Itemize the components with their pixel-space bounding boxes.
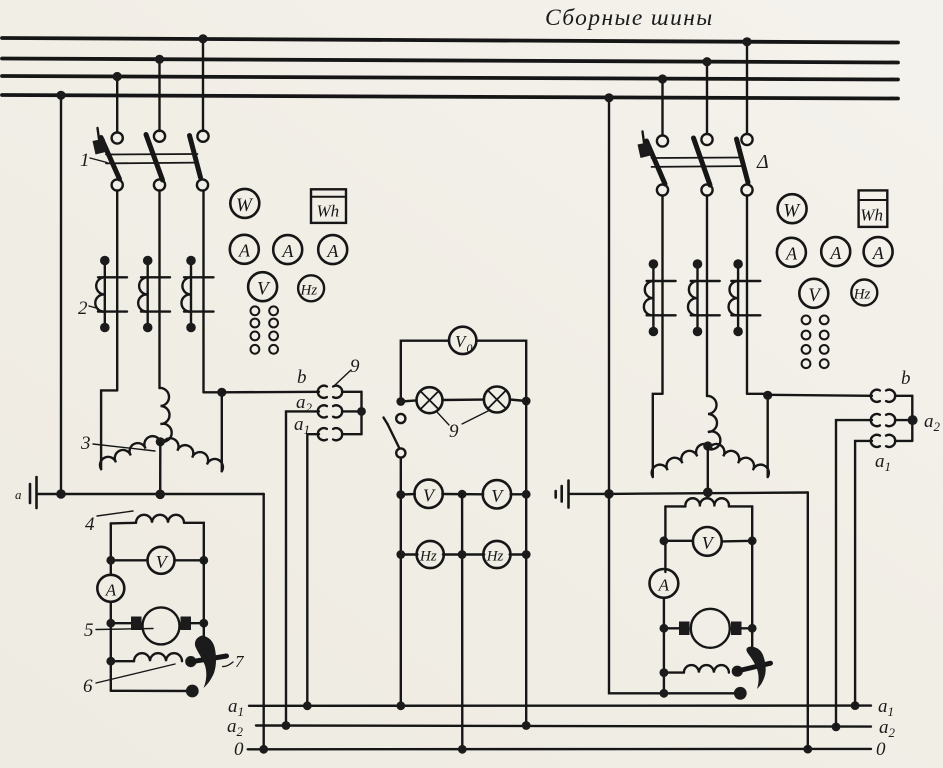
- label 3: [80, 433, 155, 454]
- node: right ground drop on bus 0: [803, 745, 812, 754]
- generator stator 3 (left machine): [100, 388, 223, 494]
- wire: b lead to jack (right): [768, 395, 872, 396]
- voltmeter V (right): [799, 279, 828, 308]
- field winding 4 (left): [111, 515, 204, 575]
- ground symbol (left): [15, 477, 61, 508]
- node: stator star point at ground bus (right): [703, 488, 713, 498]
- wire: right sync rail down: [525, 401, 527, 726]
- exciter field winding 6 (left): [106, 653, 196, 667]
- svg-text:A: A: [281, 241, 294, 261]
- label 4: [85, 511, 133, 535]
- wire: left phase 2 down: [158, 191, 160, 389]
- node: right tap on bus 4: [604, 93, 613, 102]
- svg-text:5: 5: [84, 620, 94, 641]
- wire: right phase tap 1 from bus 3: [661, 79, 663, 136]
- svg-text:A: A: [872, 243, 885, 263]
- field winding (right machine): [665, 498, 752, 572]
- terminal board (right), 8 studs: [802, 316, 829, 369]
- current transformer 2a (left): [95, 256, 127, 333]
- svg-text:A: A: [829, 243, 842, 263]
- busbar 3: [2, 76, 898, 80]
- voltmeter V (right exciter): [660, 527, 757, 556]
- label 9 (lamps): [437, 410, 490, 442]
- ammeter A (left exciter): [97, 575, 124, 691]
- svg-text:Hz: Hz: [853, 287, 871, 303]
- svg-text:A: A: [326, 241, 339, 261]
- wire: right phase 2 down: [706, 196, 708, 397]
- svg-text:0: 0: [467, 341, 473, 355]
- energy meter Wh (right): [859, 190, 888, 227]
- svg-text:b: b: [297, 367, 307, 388]
- wire: left ground tap from bus 4: [60, 96, 62, 495]
- wire: exciter loop bottom with pivot stud (left): [111, 685, 199, 698]
- bus 0 (bottom): [248, 748, 871, 751]
- svg-text:9: 9: [350, 356, 360, 377]
- node: left a1 plug drop on bus a1: [303, 701, 312, 710]
- rheostat arm 7 (left): [191, 623, 227, 688]
- wire: left phase tap 3 from bus 1: [202, 39, 204, 132]
- node: right tap on bus 3: [658, 74, 667, 83]
- frequency meter Hz (sync left): [396, 541, 466, 568]
- node: left tap on bus 4: [56, 91, 65, 100]
- node: ground at bus-4 tap (right): [604, 489, 614, 499]
- current transformer (right, phase 2): [688, 259, 720, 336]
- ammeter A3 (left): [318, 235, 347, 264]
- node: sync middle rail on bus 0: [458, 745, 467, 754]
- svg-text:0: 0: [234, 739, 244, 760]
- wire: left phase tap 1 from bus 3: [116, 77, 118, 133]
- node: right tap on bus 2: [702, 57, 711, 66]
- knife switch (sync panel): [384, 414, 406, 706]
- busbar 4: [2, 95, 898, 99]
- frequency meter Hz (sync right): [467, 541, 531, 568]
- voltmeter V (left exciter): [106, 547, 208, 574]
- voltmeter V (left): [248, 272, 277, 301]
- wire: right phase tap 2 from bus 2: [706, 62, 708, 135]
- voltmeter V (sync left): [396, 480, 442, 508]
- terminal board (left), 8 studs: [251, 306, 279, 353]
- frequency meter Hz (right): [851, 280, 877, 306]
- svg-text:b: b: [901, 368, 911, 389]
- node: left tap on bus 2: [155, 55, 164, 64]
- node: right a2 plug drop on bus a2: [832, 723, 841, 732]
- synchronizing jack (right), rows b / a2 / a1: [871, 390, 918, 447]
- svg-text:9: 9: [449, 421, 459, 442]
- node: sync right rail on bus a2: [522, 721, 531, 730]
- node: stator phase-3 to synchronizing jack: [217, 388, 226, 397]
- generator stator (right machine): [652, 394, 769, 493]
- current transformer 2b (left): [138, 256, 170, 333]
- wire: a2 lead from jack down to bus a2 (right): [836, 420, 872, 727]
- ammeter A2 (left): [273, 235, 302, 264]
- label 1: [80, 150, 107, 171]
- node: ground at bus-4 tap (left): [56, 489, 66, 499]
- svg-text:Hz: Hz: [300, 283, 318, 299]
- label 6: [83, 664, 175, 697]
- disconnect switch 1 (left machine): [93, 128, 209, 191]
- wire: ground bus drop to bus 0 (right): [807, 493, 809, 750]
- wire: right phase 3 down: [746, 196, 748, 394]
- svg-text:A: A: [105, 581, 117, 600]
- voltmeter V (sync right): [442, 480, 530, 508]
- ammeter A1 (right): [777, 238, 806, 267]
- node: left ground drop on bus 0: [259, 745, 268, 754]
- wire: left phase tap 2 from bus 2: [158, 59, 160, 131]
- svg-text:6: 6: [83, 676, 93, 697]
- ammeter A1 (left): [230, 235, 259, 264]
- wire: exciter loop bottom with pivot stud (right): [660, 687, 747, 700]
- wire: left phase 1 down: [116, 191, 118, 391]
- svg-text:Hz: Hz: [419, 549, 437, 565]
- disconnect switch Д (right machine): [638, 132, 753, 196]
- label 7: [223, 652, 246, 671]
- node: left a2 plug drop on bus a2: [282, 721, 291, 730]
- synchronizing lamp L1: [396, 387, 442, 413]
- wire: bus-4 tap continues to exciter loop (right): [609, 494, 664, 693]
- svg-text:1: 1: [80, 150, 90, 171]
- exciter machine (right): [660, 541, 757, 648]
- busbar 2: [2, 59, 898, 63]
- svg-text:A: A: [785, 244, 798, 264]
- svg-text:a: a: [15, 487, 22, 502]
- synchronizing lamp L2: [443, 387, 531, 413]
- wire: right phase 1 down: [661, 196, 663, 394]
- rheostat arm (right): [737, 633, 770, 689]
- svg-text:Wh: Wh: [860, 206, 883, 225]
- label 5: [84, 620, 153, 641]
- svg-text:A: A: [658, 576, 670, 595]
- busbar 1: [2, 38, 898, 43]
- wire: a1 lead from jack down to bus a1 (right): [855, 441, 872, 706]
- bus a1 (bottom): [249, 704, 871, 707]
- node: right stator phase-3 to synchronizing jack: [763, 391, 772, 400]
- svg-text:2: 2: [78, 298, 88, 319]
- current transformer (right, phase 3): [729, 259, 761, 336]
- zero voltmeter V0: [401, 327, 526, 402]
- node: left tap on bus 3: [113, 72, 122, 81]
- svg-text:0: 0: [876, 739, 886, 760]
- frequency meter Hz (left): [298, 275, 324, 301]
- svg-text:Сборные шины: Сборные шины: [545, 5, 714, 31]
- ammeter A3 (right): [864, 237, 893, 266]
- synchronizing jack (left), rows b / a2 / a1: [318, 386, 366, 441]
- wire: sync middle rail down to bus 0: [461, 494, 464, 749]
- node: right a1 plug drop on bus a1: [851, 701, 860, 710]
- wire: a1 lead from jack down to bus a1 (left): [307, 434, 319, 706]
- label 9 at left jack: [335, 356, 360, 385]
- label 2: [78, 298, 98, 319]
- svg-text:3: 3: [80, 433, 91, 454]
- current transformer (right, phase 1): [644, 259, 676, 336]
- energy meter Wh (left): [311, 189, 346, 223]
- wattmeter W (right): [778, 194, 807, 223]
- wire: right ground bus: [609, 493, 808, 494]
- svg-text:Δ: Δ: [756, 151, 769, 173]
- node: stator star point at ground bus (left): [155, 490, 165, 500]
- svg-text:A: A: [238, 241, 251, 261]
- bus a2 (bottom): [256, 726, 871, 727]
- wire: right ground tap from bus 4: [608, 98, 610, 494]
- node: left tap on bus 1: [198, 34, 207, 43]
- svg-text:Wh: Wh: [317, 202, 340, 221]
- ammeter A2 (right): [821, 237, 850, 266]
- wire: left phase 3 down: [202, 191, 204, 393]
- wire: left ground bus: [61, 493, 264, 495]
- exciter field winding (right): [660, 665, 743, 677]
- wire: a2 lead from jack down to bus a2 (left): [286, 411, 319, 725]
- node: right tap on bus 1: [742, 37, 751, 46]
- svg-text:W: W: [236, 195, 254, 216]
- ammeter A (right exciter): [650, 569, 679, 693]
- node: sync left rail on bus a1: [396, 701, 405, 710]
- svg-text:Hz: Hz: [486, 549, 504, 565]
- wattmeter W (left): [230, 189, 259, 218]
- wire: right phase tap 3 from bus 1: [746, 42, 748, 135]
- svg-text:4: 4: [85, 514, 95, 535]
- current transformer 2c (left): [181, 256, 213, 333]
- svg-text:W: W: [783, 200, 801, 221]
- ground symbol (right): [556, 481, 609, 508]
- wire: ground bus drop to bus 0 (left): [263, 494, 265, 749]
- wire: b lead to jack (left): [222, 391, 319, 394]
- exciter machine 5 (left): [106, 560, 208, 644]
